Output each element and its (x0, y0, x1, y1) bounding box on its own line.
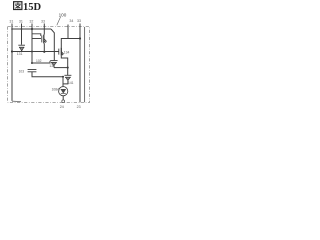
node junction dot 63,76.8 (62, 76, 64, 78)
node junction dot at 21.5,29 (21, 28, 23, 30)
oscillator 108A (circle with triangle) (59, 87, 68, 96)
wire: top supply bus (12, 28, 51, 30)
node junction dot at 12,29 (11, 28, 13, 30)
wire: mid horizontal rail (12, 51, 59, 53)
wire: bus diagonal jog (51, 29, 54, 60)
label 100 leader (57, 17, 61, 25)
wire: from 136 source to vertical (54, 67, 68, 69)
node junction dot at 32,29 (31, 28, 33, 30)
svg-text:31: 31 (19, 20, 23, 24)
terminal 24 bubble (62, 100, 65, 103)
transistor 136 (50, 61, 57, 66)
transistor 134 (59, 48, 64, 56)
wire: cap bottom to bottom rail (32, 72, 63, 77)
node junction dot 32,51.5 (31, 51, 33, 53)
transistor 132 (42, 35, 47, 44)
svg-text:134: 134 (64, 51, 70, 55)
node 34 stub (67, 25, 69, 39)
svg-text:34: 34 (69, 19, 73, 23)
wire: source of 134 jog right/down (61, 56, 67, 75)
svg-text:24: 24 (60, 105, 64, 109)
svg-text:31: 31 (9, 20, 13, 24)
svg-text:32: 32 (29, 20, 33, 24)
svg-text:103: 103 (19, 69, 25, 73)
wire: gate feed to 136 (32, 61, 50, 63)
wire: short bottom segment (12, 100, 21, 102)
svg-text:108A: 108A (52, 87, 61, 91)
wire: oscillator to terminal 24 (62, 96, 64, 100)
node 32 stub (31, 24, 33, 30)
node junction dot 67.7,67.6 (67, 67, 69, 69)
svg-text:33: 33 (41, 20, 45, 24)
wire: 141 source bend to oscillator (63, 80, 68, 84)
wire: gate branch lower (32, 38, 41, 40)
svg-text:23: 23 (77, 105, 81, 109)
wire: left vertical rail (11, 29, 13, 101)
enclosure border (dash-dot) (8, 27, 90, 103)
svg-text:33: 33 (77, 19, 81, 23)
wire: gate branch upper (32, 34, 41, 36)
node junction dot 32,63 (31, 62, 33, 64)
wire: inner right rail (84, 27, 86, 102)
reference labels (crisper) (9, 12, 81, 109)
svg-text:131: 131 (17, 52, 23, 56)
node 31 leader stub (11, 24, 13, 30)
node junction dot 12,51.5 (11, 50, 13, 52)
transistor 141 (64, 75, 71, 80)
svg-text:141: 141 (68, 81, 74, 85)
node junction dot 80,38.5 (79, 37, 81, 39)
svg-text:15D: 15D (23, 2, 42, 13)
node 31b stub (21, 24, 23, 30)
capacitor 103 (28, 70, 37, 72)
図 glyph (drawn) (14, 2, 22, 10)
svg-text:100: 100 (59, 12, 67, 17)
node 33r stub / right rail (79, 24, 81, 103)
wire: vertical from dot 32,29 down (31, 29, 33, 63)
transistor 131 (vertical lead from bus) (21, 29, 23, 45)
node 33 stub (43, 24, 45, 30)
node junction dot 44.3,51.8 (43, 51, 45, 53)
figure title 図15D (14, 2, 42, 13)
wire: drain of 134 up and over (61, 39, 80, 48)
wire: node to oscillator top (62, 77, 64, 87)
